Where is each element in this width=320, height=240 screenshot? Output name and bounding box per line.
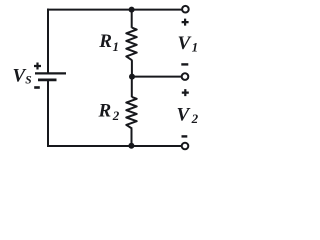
terminal middle xyxy=(182,73,189,80)
wire left rail upper xyxy=(47,9,49,73)
svg-text:VS: VS xyxy=(13,65,32,86)
terminal top (V1 +) xyxy=(182,6,189,13)
battery Vs bottom plate xyxy=(38,79,57,82)
node junction bottom xyxy=(128,143,134,149)
wire left rail lower xyxy=(47,81,49,148)
resistor R1 xyxy=(126,28,136,61)
plus sign middle terminal lower xyxy=(182,89,189,96)
battery - polarity xyxy=(34,86,40,89)
svg-text:R2: R2 xyxy=(98,101,120,124)
battery + polarity xyxy=(34,63,41,70)
wire middle tap xyxy=(132,76,182,78)
terminal bottom (V2 -) xyxy=(182,143,189,150)
battery Vs top plate xyxy=(35,72,66,74)
wire R1 top lead xyxy=(131,10,133,28)
minus sign middle terminal upper xyxy=(181,63,188,65)
svg-text:V1: V1 xyxy=(178,33,199,54)
node junction middle xyxy=(129,74,135,80)
wire R1 bottom lead xyxy=(131,60,133,77)
wire top rail xyxy=(47,9,182,11)
wire R2 top lead xyxy=(131,77,133,98)
svg-text:R1: R1 xyxy=(98,31,119,54)
wire R2 bottom lead xyxy=(131,128,133,146)
svg-text:V2: V2 xyxy=(177,104,199,125)
plus sign top terminal xyxy=(182,19,189,26)
minus sign bottom terminal xyxy=(182,135,188,137)
node junction top xyxy=(129,7,135,13)
wire bottom rail xyxy=(47,145,182,147)
resistor R2 xyxy=(126,97,136,129)
